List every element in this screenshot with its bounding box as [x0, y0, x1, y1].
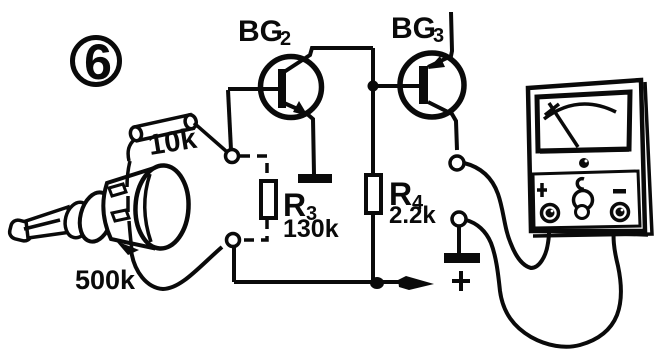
svg-text:BG: BG	[391, 12, 436, 45]
svg-text:6: 6	[84, 34, 112, 90]
svg-text:500k: 500k	[75, 265, 136, 295]
svg-text:2.2k: 2.2k	[389, 202, 436, 229]
svg-text:130k: 130k	[283, 215, 339, 243]
svg-text:2: 2	[280, 28, 291, 50]
svg-text:3: 3	[433, 25, 444, 47]
svg-text:BG: BG	[238, 15, 283, 48]
